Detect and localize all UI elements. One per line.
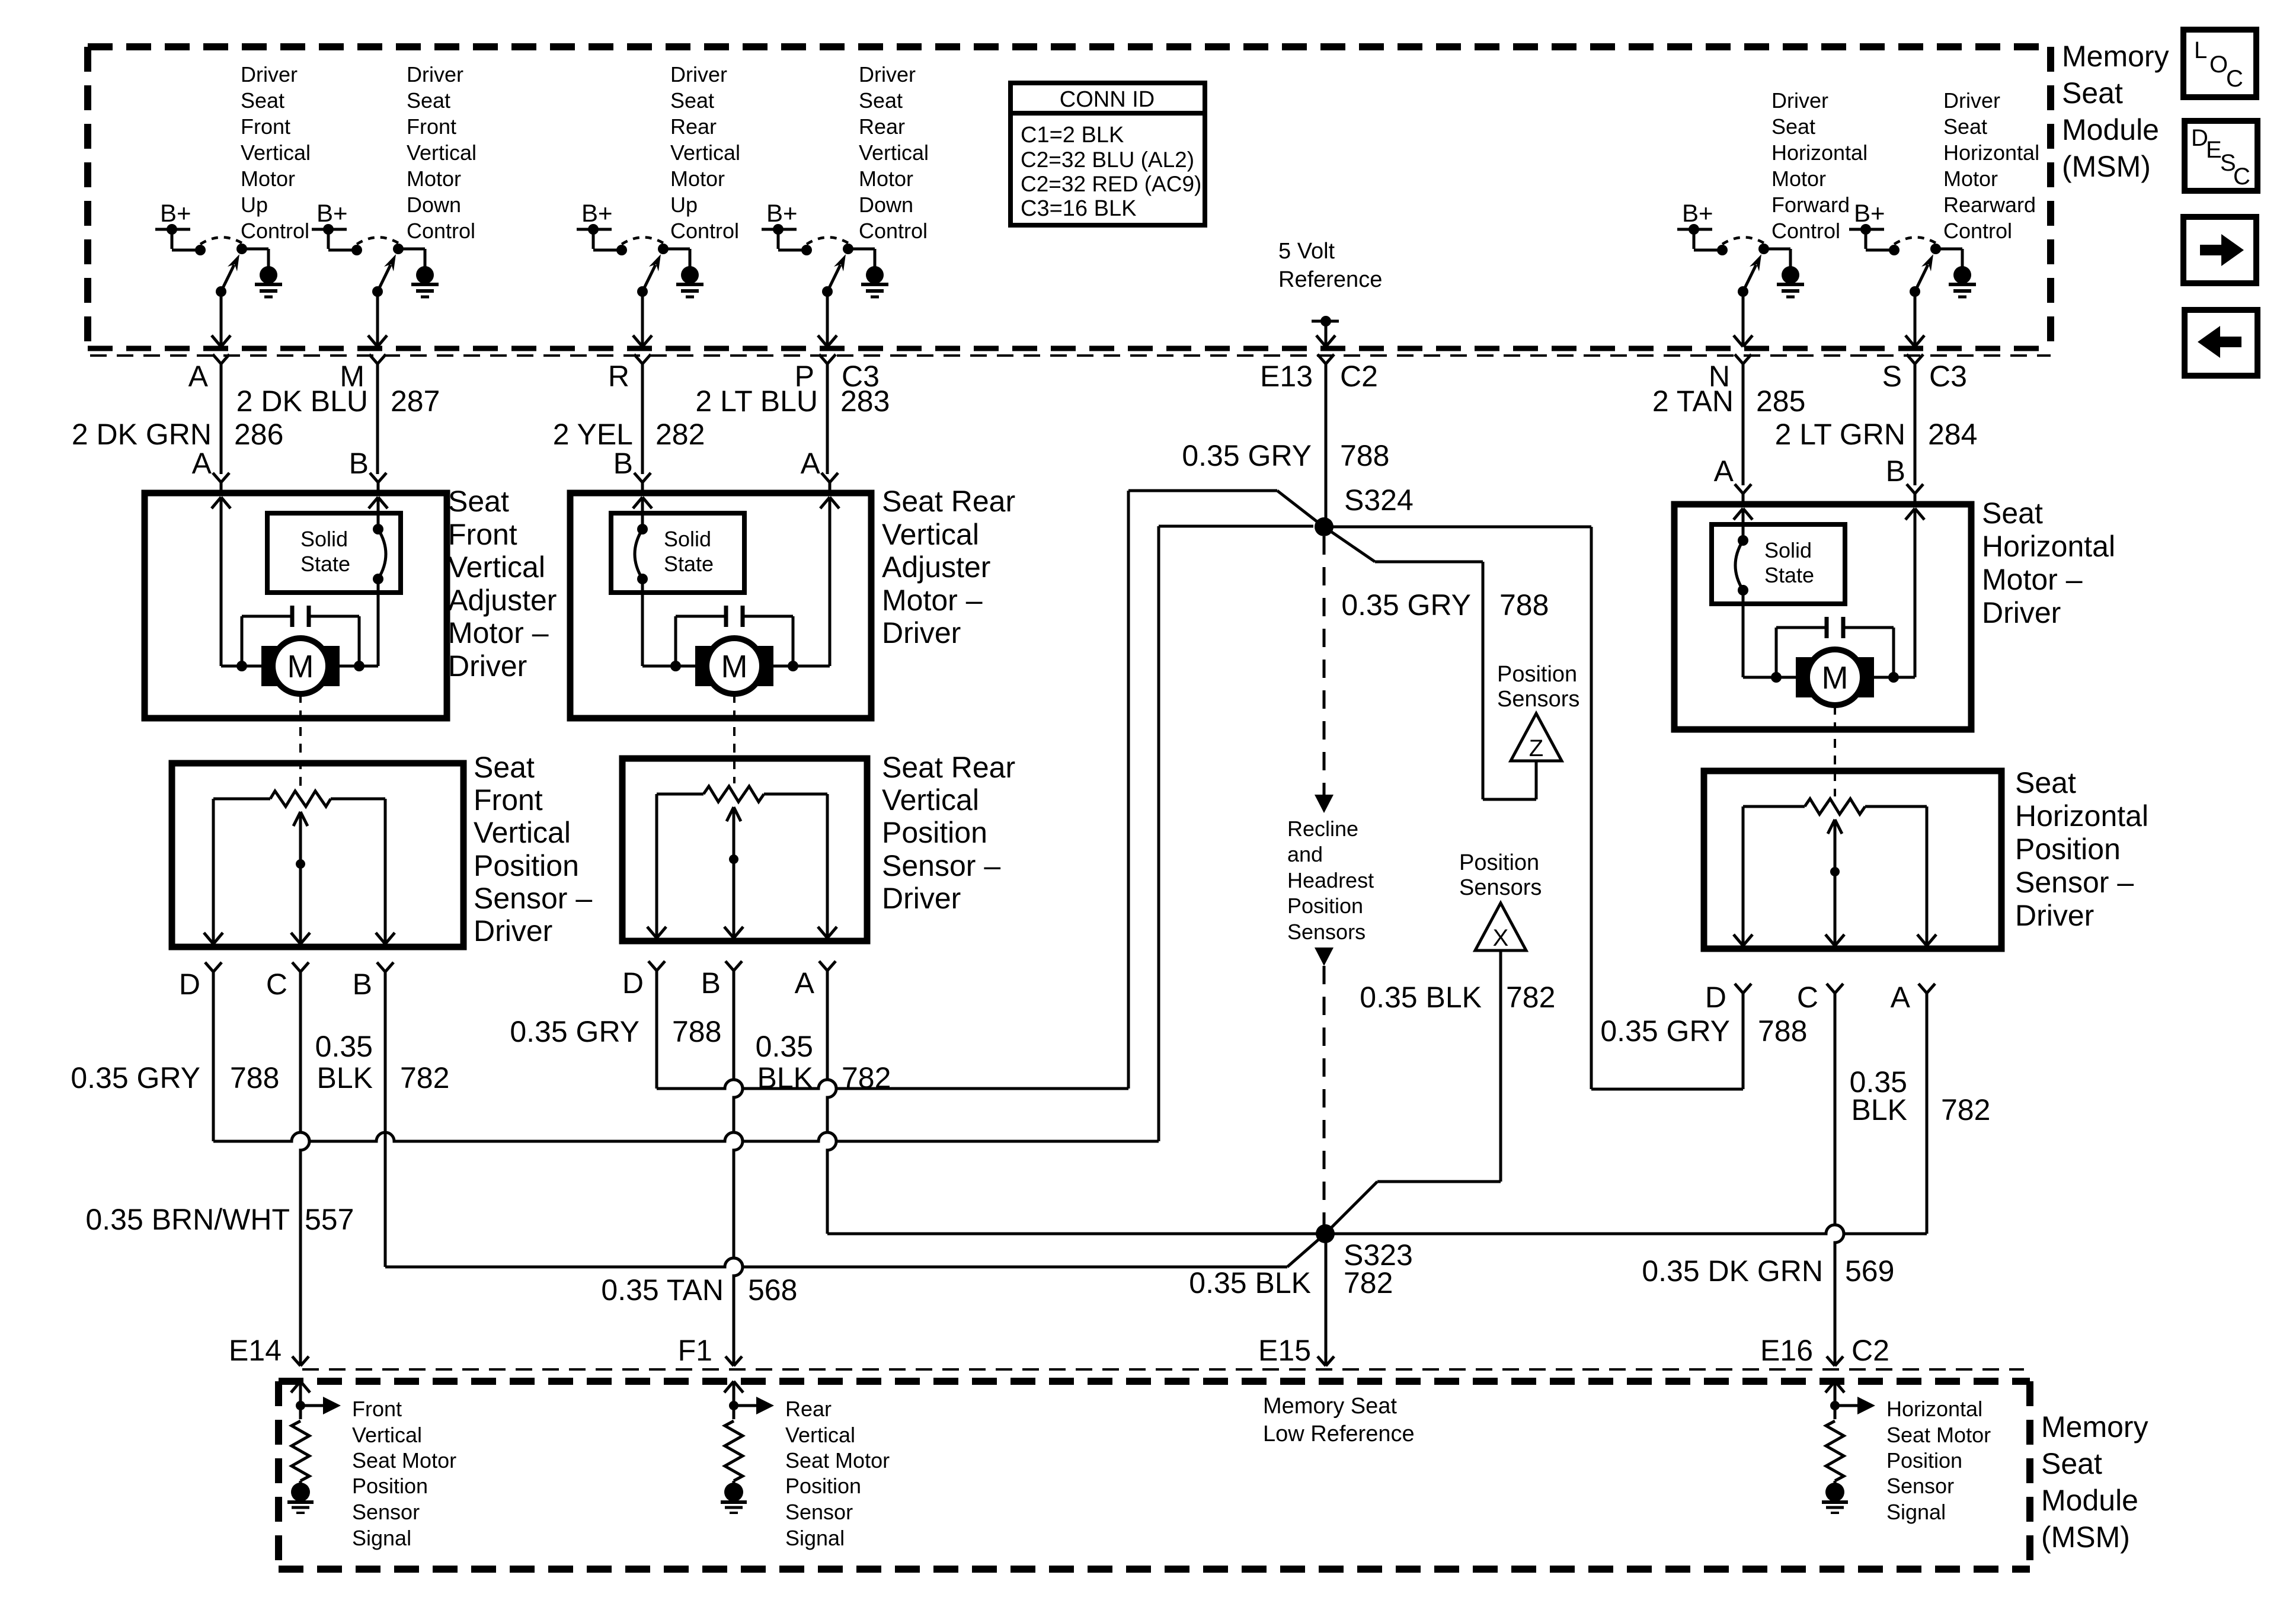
ground at driver seat rear vertical motor up control switch — [676, 266, 703, 297]
svg-text:A: A — [188, 360, 209, 393]
svg-text:0.35 BLK: 0.35 BLK — [1189, 1266, 1311, 1299]
svg-text:Sensor: Sensor — [1886, 1474, 1954, 1498]
position sensor PS2 Seat Rear Vertical Position Sensor - Driver box — [622, 758, 867, 941]
svg-text:0.35 BLK: 0.35 BLK — [1360, 981, 1482, 1014]
svg-text:Reference: Reference — [1278, 267, 1382, 292]
svg-text:M: M — [721, 649, 748, 684]
svg-text:S324: S324 — [1344, 484, 1414, 517]
svg-text:569: 569 — [1845, 1254, 1894, 1288]
wire bus BLK A2 to A3 through S323 (with hop) — [827, 1225, 1927, 1234]
svg-text:E13: E13 — [1260, 360, 1313, 393]
wire — [826, 364, 829, 474]
svg-text:Control: Control — [241, 219, 309, 243]
wire 0.35 GRY D3 to bus — [1742, 993, 1745, 1089]
svg-text:A: A — [1714, 454, 1734, 488]
svg-text:Front: Front — [474, 783, 543, 817]
harness connector thin dashed line (bottom) — [302, 1368, 2024, 1371]
svg-text:Driver: Driver — [448, 649, 527, 683]
svg-text:Solid: Solid — [300, 527, 348, 551]
motor connector pin letters A/B — [192, 447, 1905, 488]
svg-text:282: 282 — [655, 418, 705, 451]
svg-text:A: A — [192, 447, 212, 480]
svg-text:B: B — [353, 968, 372, 1001]
svg-text:788: 788 — [1340, 439, 1389, 472]
svg-text:O: O — [2209, 52, 2228, 78]
svg-text:Up: Up — [241, 193, 268, 217]
motor M3 Seat Horizontal Motor - Driver box and wires — [1674, 484, 1971, 729]
svg-text:Position: Position — [1287, 894, 1363, 918]
dashed wire S324 to recline and headrest position sensors — [1315, 536, 1334, 813]
module box bottom dashed border — [88, 346, 2051, 351]
svg-text:Motor: Motor — [241, 167, 295, 191]
switch driver seat rear vertical motor up control switch — [577, 199, 690, 364]
wire label 0.35 TAN 568 — [601, 1273, 797, 1307]
svg-text:B+: B+ — [316, 199, 348, 227]
wire — [641, 364, 644, 474]
wire label 0.35 GRY 788 at D2 — [510, 1015, 721, 1048]
svg-text:B: B — [1886, 454, 1905, 488]
svg-text:Z: Z — [1529, 735, 1543, 761]
sensor PS3 pins D C A — [1705, 981, 1935, 1014]
wire — [1914, 364, 1917, 485]
svg-text:(MSM): (MSM) — [2062, 150, 2151, 183]
harness connector thin dashed line (top) — [90, 354, 2051, 357]
svg-text:C: C — [2226, 66, 2243, 92]
node F1 rear vertical seat motor position sensor signal — [724, 1381, 890, 1550]
svg-text:782: 782 — [400, 1061, 449, 1094]
svg-text:C2: C2 — [1851, 1334, 1889, 1367]
motor M2 armature — [695, 638, 773, 694]
svg-text:L: L — [2194, 37, 2207, 63]
switch driver seat front vertical motor up control switch — [155, 199, 268, 364]
wire label 0.35 GRY 788 at D1 — [71, 1061, 279, 1094]
svg-text:Horizontal: Horizontal — [1771, 140, 1868, 165]
svg-text:Driver: Driver — [1771, 88, 1828, 113]
svg-text:Sensor: Sensor — [785, 1500, 853, 1524]
svg-text:Motor: Motor — [859, 167, 913, 191]
svg-text:D: D — [1705, 981, 1726, 1014]
svg-text:Front: Front — [407, 114, 456, 139]
svg-text:2 DK BLU: 2 DK BLU — [236, 385, 368, 418]
resistor at E14 — [292, 1421, 309, 1484]
svg-text:0.35 GRY: 0.35 GRY — [1600, 1014, 1730, 1048]
resistor at F1 — [725, 1421, 743, 1484]
svg-text:Seat: Seat — [2041, 1447, 2102, 1480]
wire 0.35 GRY D1 to bus — [212, 972, 215, 1141]
label Seat Rear Vertical Position Sensor - Driver — [882, 751, 1015, 915]
svg-text:0.35: 0.35 — [756, 1030, 813, 1063]
svg-text:2 LT GRN: 2 LT GRN — [1775, 418, 1905, 451]
svg-text:Horizontal: Horizontal — [1943, 140, 2039, 165]
svg-text:286: 286 — [234, 418, 283, 451]
svg-text:Driver: Driver — [1982, 596, 2061, 629]
bottom module box bottom dashed border — [279, 1566, 2030, 1573]
svg-text:Position: Position — [2015, 833, 2121, 866]
svg-text:E15: E15 — [1258, 1334, 1311, 1367]
wire 0.35 BRN/WHT C1 to E14 (hop at GRY bus) — [300, 972, 309, 1366]
svg-text:Vertical: Vertical — [785, 1423, 855, 1447]
svg-text:782: 782 — [1941, 1093, 1990, 1126]
wire — [376, 364, 379, 474]
wire 0.35 TAN B2 to F1 (hops) — [734, 971, 743, 1366]
svg-text:Signal: Signal — [785, 1526, 845, 1550]
sensor PS1 pins D C B — [179, 962, 394, 1001]
wire 0.35 GRY D2 to bus — [655, 971, 658, 1089]
svg-text:E: E — [2206, 137, 2222, 163]
svg-text:568: 568 — [748, 1273, 797, 1307]
svg-text:Vertical: Vertical — [670, 140, 740, 165]
svg-text:Solid: Solid — [1764, 538, 1812, 562]
splice S324 — [1315, 517, 1334, 536]
connector pin letters below MSM box — [188, 360, 1967, 393]
wire label 0.35 BLK 782 at A2 — [756, 1030, 891, 1094]
svg-text:B: B — [349, 447, 369, 480]
wire label 0.35 GRY 788 (S324 branch) — [1341, 588, 1549, 622]
label Position Sensors (X) — [1459, 850, 1542, 900]
svg-text:State: State — [300, 552, 350, 576]
svg-text:BLK: BLK — [757, 1061, 813, 1094]
node E14 front vertical seat motor position sensor signal — [291, 1381, 456, 1550]
svg-text:782: 782 — [842, 1061, 891, 1094]
svg-text:D: D — [179, 968, 200, 1001]
svg-text:Seat: Seat — [2015, 766, 2076, 799]
svg-text:Module: Module — [2041, 1484, 2138, 1517]
svg-text:B: B — [701, 966, 721, 1000]
dashed wiper link motor M2 to sensor — [733, 694, 736, 783]
5 volt reference terminal — [1278, 239, 1382, 364]
svg-text:Motor: Motor — [670, 167, 725, 191]
svg-text:C1=2 BLK: C1=2 BLK — [1021, 123, 1124, 148]
svg-text:Front: Front — [352, 1397, 402, 1421]
capacitor in M1 — [242, 606, 359, 666]
svg-text:Seat: Seat — [474, 751, 535, 784]
svg-text:Position: Position — [474, 849, 579, 882]
svg-text:Position: Position — [1886, 1448, 1962, 1473]
svg-text:Vertical: Vertical — [859, 140, 929, 165]
splice S323 — [1316, 1224, 1335, 1243]
potentiometer resistor and wiper in PS1 — [270, 791, 331, 933]
wire label 0.35 GRY 788 at E13 — [1182, 439, 1389, 472]
motor M1 Seat Front Vertical Adjuster Motor - Driver box and wires — [145, 473, 447, 718]
svg-text:Low Reference: Low Reference — [1263, 1422, 1415, 1446]
dashed wiper link motor M3 to sensor — [1834, 706, 1836, 796]
position sensor PS1 Seat Front Vertical Position Sensor - Driver box — [172, 763, 463, 947]
svg-text:Rear: Rear — [859, 114, 905, 139]
label Seat Horizontal Position Sensor - Driver — [2015, 766, 2148, 932]
svg-text:782: 782 — [1344, 1266, 1393, 1299]
svg-text:Seat: Seat — [1982, 497, 2043, 530]
label driver seat front vertical motor up control — [241, 62, 311, 243]
wire 0.35 BLK A3 down — [1926, 993, 1929, 1234]
module box Memory Seat Module (MSM) top dashed border — [88, 43, 2051, 50]
svg-text:Solid: Solid — [664, 527, 711, 551]
svg-text:Front: Front — [448, 518, 517, 551]
svg-text:Position: Position — [785, 1474, 861, 1498]
svg-text:Sensor –: Sensor – — [882, 849, 1000, 882]
svg-text:S: S — [1882, 360, 1902, 393]
svg-text:D: D — [622, 966, 644, 1000]
svg-text:Seat: Seat — [859, 88, 903, 113]
svg-text:0.35 GRY: 0.35 GRY — [510, 1015, 639, 1048]
potentiometer resistor and wiper in PS3 — [1805, 799, 1865, 934]
svg-text:A: A — [795, 966, 815, 1000]
svg-text:Vertical: Vertical — [882, 783, 979, 817]
svg-text:2 YEL: 2 YEL — [553, 418, 633, 451]
label driver seat front vertical motor down control — [407, 62, 477, 243]
dashed wire recline stub to S323 — [1315, 948, 1334, 1227]
wire 0.35 BLK S323 to E15 — [1325, 1234, 1328, 1366]
svg-text:Motor –: Motor – — [1982, 563, 2083, 596]
svg-text:Down: Down — [407, 193, 461, 217]
svg-text:C: C — [2233, 164, 2250, 190]
label Memory Seat Module (MSM) bottom right — [2041, 1410, 2148, 1554]
solid state relay in M2 — [611, 513, 744, 593]
wire label 0.35 BLK 782 at E15 — [1189, 1266, 1311, 1299]
label driver seat horizontal motor forward control — [1771, 88, 1868, 243]
ground at E16 — [1822, 1483, 1848, 1513]
svg-text:287: 287 — [391, 385, 440, 418]
wire label 0.35 DK GRN 569 — [1642, 1254, 1894, 1288]
svg-text:C: C — [266, 968, 287, 1001]
svg-text:and: and — [1287, 842, 1323, 866]
svg-text:Memory Seat: Memory Seat — [1263, 1394, 1397, 1419]
svg-text:Sensor: Sensor — [352, 1500, 420, 1524]
ground at driver seat front vertical motor up control switch — [255, 266, 282, 297]
CONN ID table — [1011, 83, 1205, 225]
svg-text:Control: Control — [1943, 219, 2012, 243]
wire BLK S323 to X position sensors — [1325, 950, 1501, 1234]
svg-text:F1: F1 — [678, 1334, 712, 1367]
wire — [220, 364, 223, 474]
label driver seat rear vertical motor up control — [670, 62, 740, 243]
switch driver seat front vertical motor down control switch — [312, 199, 425, 364]
triangle connector Z position sensors — [1511, 713, 1562, 761]
label Seat Front Vertical Adjuster Motor - Driver — [448, 485, 557, 683]
svg-text:State: State — [1764, 563, 1814, 587]
wire label 0.35 GRY 788 at D3 — [1600, 1014, 1807, 1048]
ground at driver seat horizontal motor forward control switch — [1777, 266, 1804, 297]
module box right dashed border — [2047, 47, 2054, 348]
svg-text:Seat: Seat — [2062, 76, 2123, 110]
svg-text:(MSM): (MSM) — [2041, 1521, 2130, 1554]
svg-text:0.35 DK GRN: 0.35 DK GRN — [1642, 1254, 1823, 1288]
sensor PS2 pins D B A — [622, 961, 836, 1000]
svg-text:Driver: Driver — [241, 62, 298, 87]
svg-text:Motor –: Motor – — [882, 584, 983, 617]
svg-text:Seat Rear: Seat Rear — [882, 485, 1015, 518]
wire 0.35 BLK A2 to bus (with hops) — [827, 971, 836, 1234]
wire label 0.35 BRN/WHT 557 — [85, 1203, 354, 1236]
svg-text:Driver: Driver — [2015, 899, 2094, 932]
solid state relay in M3 — [1712, 524, 1845, 604]
svg-text:Down: Down — [859, 193, 913, 217]
svg-text:5 Volt: 5 Volt — [1278, 239, 1335, 264]
svg-text:Sensors: Sensors — [1287, 920, 1366, 944]
potentiometer resistor and wiper in PS2 — [703, 786, 764, 927]
label Seat Front Vertical Position Sensor - Driver — [474, 751, 592, 948]
svg-text:Seat Motor: Seat Motor — [1886, 1423, 1991, 1447]
svg-text:Driver: Driver — [882, 882, 961, 915]
switch driver seat horizontal motor rearward control switch — [1849, 199, 1962, 364]
svg-text:Driver: Driver — [882, 616, 961, 649]
svg-text:Horizontal: Horizontal — [1886, 1397, 1982, 1421]
svg-text:Control: Control — [670, 219, 739, 243]
icon box DESC — [2185, 121, 2257, 191]
wire 0.35 DK GRN C3 to E16 (hop at BLK bus) — [1835, 993, 1844, 1366]
label driver seat rear vertical motor down control — [859, 62, 929, 243]
svg-text:E14: E14 — [229, 1334, 282, 1367]
svg-text:CONN ID: CONN ID — [1060, 87, 1155, 112]
module box left dashed border — [84, 47, 91, 348]
svg-text:788: 788 — [1758, 1014, 1807, 1048]
connector fork at bottom module — [1318, 1356, 1334, 1366]
bottom module box top dashed border — [279, 1378, 2030, 1385]
svg-text:B+: B+ — [160, 199, 191, 227]
ground at E14 — [287, 1483, 314, 1513]
label S324 — [1344, 484, 1414, 517]
ground at driver seat front vertical motor down control switch — [411, 266, 439, 297]
position sensor PS3 Seat Horizontal Position Sensor - Driver box — [1704, 771, 2001, 949]
svg-text:Seat: Seat — [448, 485, 509, 518]
connector fork at bottom module — [1827, 1356, 1843, 1366]
svg-text:0.35 TAN: 0.35 TAN — [601, 1273, 724, 1307]
svg-text:M: M — [1822, 660, 1849, 696]
wire bus BLK B1 to S323 (with hop) — [385, 1234, 1325, 1267]
svg-text:788: 788 — [672, 1015, 721, 1048]
wire E13 to S324 — [1325, 364, 1328, 527]
svg-text:Control: Control — [407, 219, 475, 243]
svg-text:Seat Motor: Seat Motor — [785, 1448, 890, 1473]
svg-text:557: 557 — [305, 1203, 354, 1236]
label Memory Seat Module (MSM) top right — [2062, 40, 2169, 183]
label Seat Rear Vertical Adjuster Motor - Driver — [882, 485, 1015, 649]
svg-text:Seat: Seat — [670, 88, 714, 113]
wire GRY S324 to Z position sensors — [1324, 527, 1536, 799]
svg-text:Position: Position — [882, 816, 987, 849]
label Memory Seat Low Reference (E15) — [1263, 1394, 1415, 1446]
svg-text:Rear: Rear — [670, 114, 717, 139]
wire labels 2 DK GRN 286 / 2 YEL 282 / 2 LT GRN 284 — [72, 418, 1978, 451]
svg-text:E16: E16 — [1760, 1334, 1813, 1367]
svg-text:M: M — [287, 649, 314, 684]
label driver seat horizontal motor rearward control — [1943, 88, 2039, 243]
svg-text:0.35 GRY: 0.35 GRY — [1182, 439, 1312, 472]
svg-text:Seat Motor: Seat Motor — [352, 1448, 456, 1473]
svg-text:Vertical: Vertical — [407, 140, 477, 165]
svg-text:Seat: Seat — [407, 88, 450, 113]
svg-text:Up: Up — [670, 193, 698, 217]
label S323 782 — [1344, 1238, 1413, 1299]
ground at F1 — [721, 1483, 747, 1513]
svg-text:Headrest: Headrest — [1287, 868, 1374, 892]
svg-text:Control: Control — [859, 219, 928, 243]
svg-text:BLK: BLK — [1851, 1093, 1907, 1126]
wire bus GRY S324 to D2 (with hops) — [657, 491, 1325, 1089]
svg-text:284: 284 — [1928, 418, 1977, 451]
svg-text:2 DK GRN: 2 DK GRN — [72, 418, 212, 451]
svg-text:B+: B+ — [581, 199, 613, 227]
bottom module box left dashed border — [275, 1381, 282, 1569]
svg-text:0.35 GRY: 0.35 GRY — [71, 1061, 200, 1094]
connector fork at bottom module — [292, 1356, 309, 1366]
motor M1 armature — [261, 638, 340, 694]
svg-text:B+: B+ — [1682, 199, 1713, 227]
svg-text:Seat Rear: Seat Rear — [882, 751, 1015, 784]
svg-text:Vertical: Vertical — [882, 518, 979, 551]
svg-text:Vertical: Vertical — [352, 1423, 422, 1447]
svg-text:Vertical: Vertical — [474, 816, 571, 849]
svg-text:0.35 BRN/WHT: 0.35 BRN/WHT — [85, 1203, 290, 1236]
dashed wiper link motor M1 to sensor — [299, 694, 302, 788]
svg-text:Sensor –: Sensor – — [474, 882, 592, 915]
wire bus GRY S324 to D3 — [1325, 527, 1743, 1089]
svg-text:0.35: 0.35 — [315, 1030, 373, 1063]
motor M2 Seat Rear Vertical Adjuster Motor - Driver box and wires — [570, 473, 871, 718]
svg-text:Recline: Recline — [1287, 817, 1358, 841]
svg-text:C3=16 BLK: C3=16 BLK — [1021, 196, 1136, 221]
wire label 0.35 BLK 782 at B1 — [315, 1030, 450, 1094]
svg-text:Sensors: Sensors — [1459, 875, 1542, 900]
svg-text:B+: B+ — [766, 199, 798, 227]
svg-text:Sensor –: Sensor – — [2015, 866, 2134, 899]
svg-text:Memory: Memory — [2062, 40, 2169, 73]
wire label 0.35 BLK 782 at A3 — [1850, 1065, 1991, 1126]
svg-text:782: 782 — [1506, 981, 1555, 1014]
bottom module connector labels E14 F1 E15 E16 — [229, 1334, 1889, 1367]
svg-text:Position: Position — [352, 1474, 428, 1498]
capacitor in M2 — [676, 606, 793, 666]
ground at driver seat horizontal motor rearward control switch — [1949, 266, 1976, 297]
svg-text:Driver: Driver — [859, 62, 916, 87]
resistor at E16 — [1826, 1421, 1844, 1484]
wire labels 2 DK BLU 287 / 2 LT BLU 283 / 2 TAN 285 — [236, 385, 1806, 418]
wire bus GRY S324 to D1 (with hops) — [213, 526, 1313, 1141]
svg-text:Adjuster: Adjuster — [882, 550, 990, 584]
motor M3 armature — [1796, 649, 1874, 705]
svg-text:State: State — [664, 552, 714, 576]
svg-text:285: 285 — [1756, 385, 1805, 418]
svg-text:Adjuster: Adjuster — [448, 584, 557, 617]
wire 0.35 BLK B1 to bus — [384, 972, 387, 1267]
svg-text:Seat: Seat — [1771, 114, 1815, 139]
label Position Sensors (Z) — [1497, 662, 1579, 712]
svg-text:Motor: Motor — [1771, 167, 1826, 191]
svg-text:Vertical: Vertical — [448, 550, 545, 584]
ground at driver seat rear vertical motor down control switch — [861, 266, 888, 297]
svg-text:Motor –: Motor – — [448, 616, 549, 649]
connector fork at bottom module — [725, 1356, 742, 1366]
svg-text:C: C — [1797, 981, 1818, 1014]
svg-text:Seat: Seat — [241, 88, 284, 113]
svg-text:2 TAN: 2 TAN — [1652, 385, 1734, 418]
solid state relay in M1 — [267, 513, 401, 593]
svg-text:Sensors: Sensors — [1497, 687, 1579, 712]
icon box LOC — [2183, 30, 2256, 97]
svg-text:Control: Control — [1771, 219, 1840, 243]
switch driver seat rear vertical motor down control switch — [762, 199, 875, 364]
icon box right arrow — [2183, 217, 2256, 283]
svg-text:Rearward: Rearward — [1943, 193, 2036, 217]
svg-text:Motor: Motor — [407, 167, 461, 191]
bottom module box right dashed border — [2026, 1381, 2033, 1569]
svg-text:R: R — [608, 360, 629, 393]
capacitor in M3 — [1776, 617, 1894, 677]
svg-text:A: A — [801, 447, 821, 480]
svg-text:C2=32 BLU (AL2): C2=32 BLU (AL2) — [1021, 148, 1194, 172]
svg-text:B+: B+ — [1854, 199, 1885, 227]
svg-text:C2=32 RED (AC9): C2=32 RED (AC9) — [1021, 172, 1201, 196]
svg-text:Position: Position — [1497, 662, 1577, 687]
